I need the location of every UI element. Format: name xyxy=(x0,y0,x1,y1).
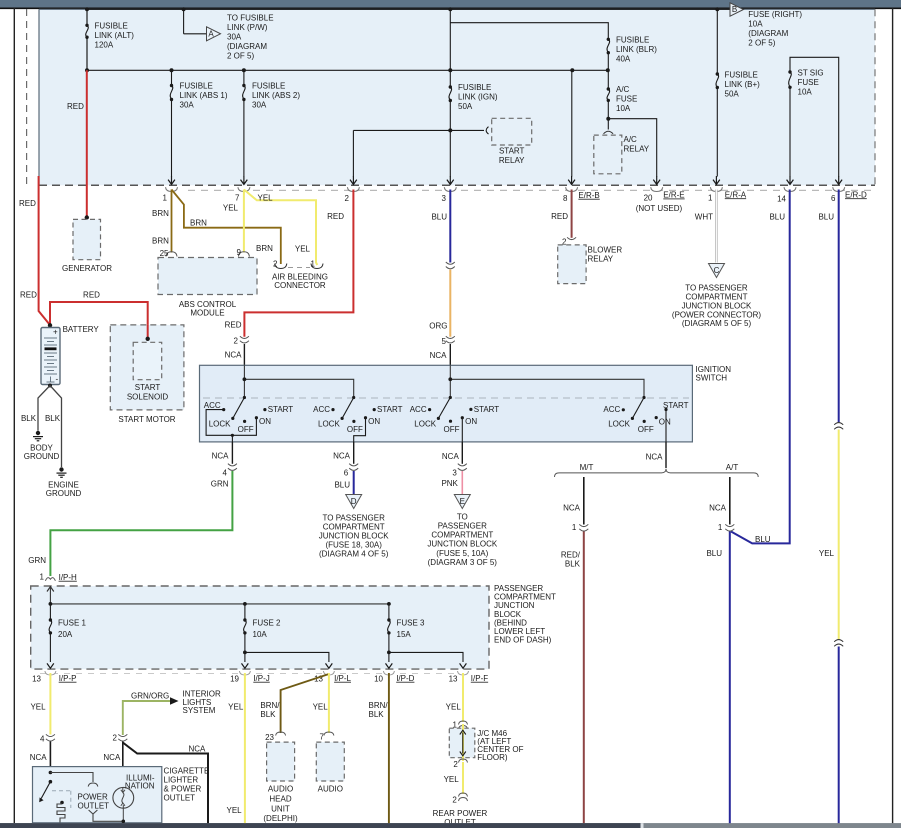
svg-text:COMPARTMENT: COMPARTMENT xyxy=(686,293,748,302)
svg-text:BLU: BLU xyxy=(769,213,785,222)
blower relay xyxy=(558,245,586,284)
svg-text:POWER: POWER xyxy=(78,792,108,801)
page right border xyxy=(892,8,894,823)
svg-text:AUDIO: AUDIO xyxy=(268,785,293,794)
svg-text:JUNCTION BLOCK: JUNCTION BLOCK xyxy=(682,302,752,311)
svg-text:RED: RED xyxy=(551,212,568,221)
svg-text:E/R-E: E/R-E xyxy=(663,191,684,200)
svg-text:10A: 10A xyxy=(748,20,763,29)
start solenoid xyxy=(133,342,162,379)
svg-text:YEL: YEL xyxy=(819,549,835,558)
svg-text:JUNCTION BLOCK: JUNCTION BLOCK xyxy=(319,532,389,541)
svg-text:OFF: OFF xyxy=(444,425,460,434)
svg-text:40A: 40A xyxy=(616,55,631,64)
svg-text:10A: 10A xyxy=(798,88,813,97)
ignition section 3 xyxy=(438,398,462,443)
svg-text:BLU: BLU xyxy=(706,549,722,558)
svg-text:START: START xyxy=(135,383,161,392)
svg-text:START: START xyxy=(663,401,689,410)
svg-text:6: 6 xyxy=(344,469,349,478)
svg-text:OUTLET: OUTLET xyxy=(78,801,110,810)
fuse 3 15A xyxy=(388,604,463,662)
illumination lamp xyxy=(113,787,134,808)
svg-text:LOCK: LOCK xyxy=(318,419,340,428)
branch to start relay and pin 2 xyxy=(448,128,452,132)
ABS control module xyxy=(166,252,177,257)
svg-text:10A: 10A xyxy=(253,630,268,639)
svg-text:1: 1 xyxy=(708,194,713,203)
branch to BLR column xyxy=(450,23,609,89)
box2 input arrow xyxy=(49,586,51,604)
svg-text:2: 2 xyxy=(453,760,458,769)
fusible link (ALT) 120A xyxy=(86,25,89,37)
svg-text:B: B xyxy=(732,5,737,14)
box2 bus xyxy=(50,603,389,605)
svg-text:I/P-H: I/P-H xyxy=(59,573,77,582)
ignition switch box xyxy=(200,365,693,442)
A/C fuse 10A xyxy=(607,89,610,130)
svg-text:START: START xyxy=(268,405,294,414)
svg-text:30A: 30A xyxy=(252,101,267,110)
svg-text:1: 1 xyxy=(163,194,168,203)
svg-text:YEL: YEL xyxy=(223,204,239,213)
svg-text:BLU: BLU xyxy=(431,213,447,222)
svg-text:(DELPHI): (DELPHI) xyxy=(263,814,298,823)
BLU/YEL/BLU wire pin6 xyxy=(838,190,840,423)
svg-text:(NOT USED): (NOT USED) xyxy=(636,204,683,213)
svg-text:E/R-D: E/R-D xyxy=(845,190,867,199)
top title bar xyxy=(0,0,901,8)
svg-text:START: START xyxy=(377,405,403,414)
svg-text:NCA: NCA xyxy=(430,351,448,360)
svg-text:10A: 10A xyxy=(616,104,631,113)
generator xyxy=(85,215,89,219)
engine ground xyxy=(59,467,63,471)
svg-text:START MOTOR: START MOTOR xyxy=(118,415,175,424)
svg-text:+: + xyxy=(53,328,58,337)
bottom status bar overlay xyxy=(0,823,901,828)
svg-text:NCA: NCA xyxy=(442,452,460,461)
svg-text:ST SIG: ST SIG xyxy=(798,69,824,78)
NCA wires below connector 2 xyxy=(122,742,124,788)
svg-text:GENERATOR: GENERATOR xyxy=(62,264,112,273)
svg-text:3: 3 xyxy=(452,469,457,478)
BRN/BLK wire I/P-L to audio head unit xyxy=(281,674,329,733)
svg-text:8: 8 xyxy=(563,194,568,203)
fusible link (B+) 50A xyxy=(716,72,719,75)
svg-text:ACC: ACC xyxy=(313,405,330,414)
RED wire pin2 to ignition xyxy=(244,190,353,337)
svg-text:ON: ON xyxy=(259,417,271,426)
svg-text:YEL: YEL xyxy=(258,194,274,203)
BLU/ORG wire pin3 to ignition xyxy=(449,190,451,263)
svg-text:A/C: A/C xyxy=(616,85,630,94)
svg-text:LOCK: LOCK xyxy=(209,419,231,428)
svg-text:BLK: BLK xyxy=(45,414,61,423)
YEL wire I/P-L to audio xyxy=(328,673,330,733)
svg-text:1: 1 xyxy=(311,259,316,268)
interface arrows at box bottom xyxy=(168,176,842,184)
svg-text:YEL: YEL xyxy=(228,703,244,712)
svg-text:FUSIBLE: FUSIBLE xyxy=(725,71,758,80)
svg-text:NCA: NCA xyxy=(30,753,48,762)
svg-text:SOLENOID: SOLENOID xyxy=(127,393,169,402)
svg-text:13: 13 xyxy=(32,674,41,683)
svg-text:BLK: BLK xyxy=(369,710,385,719)
A/C relay xyxy=(604,131,614,134)
ignition section 2 xyxy=(342,398,365,443)
svg-text:-: - xyxy=(56,375,59,384)
svg-text:AIR BLEEDING: AIR BLEEDING xyxy=(272,272,328,281)
svg-text:E: E xyxy=(460,497,465,506)
wire pin7 YEL to ABS pin 9 xyxy=(243,190,245,253)
svg-text:JUNCTION BLOCK: JUNCTION BLOCK xyxy=(427,540,497,549)
box2 output arrows xyxy=(47,663,466,668)
RED wire pin8 to blower relay xyxy=(571,190,573,238)
svg-text:GROUND: GROUND xyxy=(46,489,82,498)
svg-text:ON: ON xyxy=(465,417,477,426)
svg-text:ORG: ORG xyxy=(429,322,447,331)
branch to pin 20 xyxy=(606,117,610,121)
svg-text:BRN: BRN xyxy=(152,209,169,218)
svg-text:OFF: OFF xyxy=(638,425,654,434)
svg-text:TO PASSENGER: TO PASSENGER xyxy=(323,514,386,523)
svg-text:TO: TO xyxy=(457,513,468,522)
svg-text:BRN: BRN xyxy=(152,236,169,245)
red wire left edge to battery xyxy=(39,176,50,325)
section4 output to M/T A/T brace xyxy=(665,442,667,468)
svg-text:BLU: BLU xyxy=(818,213,834,222)
svg-text:NCA: NCA xyxy=(212,451,230,460)
svg-text:30A: 30A xyxy=(180,101,195,110)
svg-text:(POWER CONNECTOR): (POWER CONNECTOR) xyxy=(672,310,762,319)
svg-text:BRN: BRN xyxy=(256,244,273,253)
YEL wire I/P-J to bottom xyxy=(244,673,246,823)
body ground xyxy=(36,431,40,435)
svg-text:BLK: BLK xyxy=(565,559,581,568)
svg-text:LINK (ABS 2): LINK (ABS 2) xyxy=(252,91,300,100)
svg-text:(DIAGRAM 4 OF 5): (DIAGRAM 4 OF 5) xyxy=(319,549,389,558)
svg-text:NCA: NCA xyxy=(103,753,121,762)
page left dashed margin line xyxy=(26,9,28,184)
svg-text:FUSE 1: FUSE 1 xyxy=(58,619,87,628)
svg-text:LIGHTER: LIGHTER xyxy=(164,776,199,785)
svg-text:OUTLET: OUTLET xyxy=(164,794,196,803)
M/T A/T brace xyxy=(555,469,759,477)
svg-text:NCA: NCA xyxy=(333,451,351,460)
fusible link (ABS 2) 30A xyxy=(243,70,246,176)
svg-text:BRN/: BRN/ xyxy=(260,701,280,710)
svg-text:YEL: YEL xyxy=(295,244,311,253)
ignition section 4 xyxy=(632,398,666,443)
svg-text:OFF: OFF xyxy=(347,425,363,434)
svg-text:E/R-B: E/R-B xyxy=(578,191,599,200)
page left border xyxy=(13,8,15,823)
svg-text:GROUND: GROUND xyxy=(24,452,60,461)
BLU wire pin14 xyxy=(731,190,790,544)
svg-text:E/R-A: E/R-A xyxy=(725,190,747,199)
svg-text:LINK (ABS 1): LINK (ABS 1) xyxy=(180,91,228,100)
svg-text:WHT: WHT xyxy=(695,213,713,222)
wire bus B to pin 8 xyxy=(571,70,573,176)
box2 bottom connector cups xyxy=(40,673,470,675)
svg-text:I/P-J: I/P-J xyxy=(253,674,269,683)
svg-text:PASSENGER: PASSENGER xyxy=(438,522,487,531)
svg-text:COMPARTMENT: COMPARTMENT xyxy=(323,523,385,532)
svg-text:LOCK: LOCK xyxy=(414,419,436,428)
svg-text:FUSIBLE: FUSIBLE xyxy=(458,83,491,92)
section1 output GRN xyxy=(231,442,233,464)
J/C M46 xyxy=(449,728,475,758)
svg-text:2: 2 xyxy=(234,337,239,346)
svg-text:FUSE (RIGHT): FUSE (RIGHT) xyxy=(748,10,802,19)
start relay xyxy=(492,118,532,145)
ignition internal dashed line xyxy=(203,397,689,399)
svg-text:4: 4 xyxy=(222,468,227,477)
M/T branch RED/BLK xyxy=(583,477,585,525)
svg-text:END OF DASH): END OF DASH) xyxy=(494,636,552,645)
svg-text:ACC: ACC xyxy=(204,401,221,410)
svg-text:BRN/: BRN/ xyxy=(369,701,389,710)
inline connector 2 xyxy=(240,336,249,338)
triangle B fuse (right) xyxy=(730,3,744,16)
fusible link (ABS 1) 30A xyxy=(170,70,173,176)
svg-text:RED: RED xyxy=(83,290,100,299)
svg-text:A/C: A/C xyxy=(624,135,638,144)
svg-text:CONNECTOR: CONNECTOR xyxy=(274,281,326,290)
connector cups at interface xyxy=(166,187,845,191)
svg-text:A/T: A/T xyxy=(726,463,739,472)
svg-text:NCA: NCA xyxy=(646,452,664,461)
svg-text:(DIAGRAM 5 OF 5): (DIAGRAM 5 OF 5) xyxy=(682,319,752,328)
B+ column with triangle B xyxy=(716,9,719,176)
svg-text:A: A xyxy=(208,30,214,39)
svg-text:RED/: RED/ xyxy=(561,550,581,559)
svg-text:50A: 50A xyxy=(458,102,473,111)
svg-text:14: 14 xyxy=(777,194,786,203)
svg-text:RELAY: RELAY xyxy=(499,156,525,165)
wire pin1 BRN to air bleeding pin 2 xyxy=(172,190,281,265)
svg-text:GRN: GRN xyxy=(211,479,229,488)
svg-text:ON: ON xyxy=(368,417,380,426)
connector interface dashed line xyxy=(188,189,872,191)
triangle A link to fusible link P/W xyxy=(184,9,207,34)
cigarette lighter & power outlet box xyxy=(33,767,162,823)
ignition bus wires xyxy=(244,379,353,397)
svg-text:20: 20 xyxy=(644,193,653,202)
svg-text:5: 5 xyxy=(442,337,447,346)
svg-text:YEL: YEL xyxy=(227,806,243,815)
power outlet internals xyxy=(49,771,53,775)
svg-text:GRN/ORG: GRN/ORG xyxy=(131,691,169,700)
svg-text:BLK: BLK xyxy=(260,710,276,719)
svg-text:LINK (P/W): LINK (P/W) xyxy=(227,23,268,32)
svg-text:& POWER: & POWER xyxy=(164,785,202,794)
svg-text:RED: RED xyxy=(20,291,37,300)
svg-text:30A: 30A xyxy=(227,33,242,42)
svg-text:I/P-D: I/P-D xyxy=(396,674,414,683)
audio xyxy=(316,742,344,781)
svg-text:I/P-F: I/P-F xyxy=(471,674,488,683)
svg-text:YEL: YEL xyxy=(30,703,46,712)
svg-text:FUSIBLE: FUSIBLE xyxy=(95,22,128,31)
svg-text:NATION: NATION xyxy=(125,782,155,791)
WHT wire pin1 to triangle C xyxy=(715,190,718,263)
svg-text:M/T: M/T xyxy=(580,463,594,472)
YEL wire I/P-F to J/C M46 xyxy=(462,673,464,722)
svg-text:TO FUSIBLE: TO FUSIBLE xyxy=(227,14,274,23)
svg-text:2 OF 5): 2 OF 5) xyxy=(227,52,254,61)
svg-text:TO PASSENGER: TO PASSENGER xyxy=(685,284,748,293)
fuse 2 10A xyxy=(244,604,329,662)
svg-text:1: 1 xyxy=(718,523,723,532)
fuse 1 20A xyxy=(49,604,52,662)
triangle E xyxy=(454,495,470,509)
svg-text:19: 19 xyxy=(230,674,239,683)
air bleeding connector xyxy=(275,264,287,269)
svg-text:AUDIO: AUDIO xyxy=(318,785,343,794)
GRN/ORG wire and interior lights arrow xyxy=(123,701,170,735)
svg-text:(FUSE 18, 30A): (FUSE 18, 30A) xyxy=(325,541,382,550)
svg-text:1: 1 xyxy=(572,523,577,532)
svg-text:NCA: NCA xyxy=(709,504,727,513)
svg-text:10: 10 xyxy=(374,674,383,683)
ST SIG fuse loop xyxy=(789,57,839,176)
svg-text:HEAD: HEAD xyxy=(269,795,291,804)
svg-text:BRN: BRN xyxy=(190,218,207,227)
svg-text:RED: RED xyxy=(327,212,344,221)
svg-text:RED: RED xyxy=(19,199,36,208)
wire bus A (top) xyxy=(87,9,730,70)
svg-text:2: 2 xyxy=(113,734,118,743)
start motor xyxy=(110,325,184,410)
svg-text:ACC: ACC xyxy=(410,405,427,414)
svg-text:D: D xyxy=(351,497,357,506)
svg-text:NCA: NCA xyxy=(189,744,207,753)
wire bus B (y=70) xyxy=(87,69,607,71)
svg-text:BLU: BLU xyxy=(334,481,350,490)
svg-text:FLOOR): FLOOR) xyxy=(477,753,508,762)
ignition section 1 xyxy=(206,398,256,443)
section3 output PNK to triangle E xyxy=(461,442,463,464)
svg-text:120A: 120A xyxy=(95,41,114,50)
svg-text:LOCK: LOCK xyxy=(608,419,630,428)
svg-text:2: 2 xyxy=(345,194,350,203)
svg-text:NCA: NCA xyxy=(563,504,581,513)
svg-text:YEL: YEL xyxy=(313,703,329,712)
svg-text:9: 9 xyxy=(237,248,242,257)
svg-text:LINK (BLR): LINK (BLR) xyxy=(616,45,657,54)
audio head unit xyxy=(267,742,295,781)
svg-text:50A: 50A xyxy=(725,90,740,99)
svg-text:6: 6 xyxy=(831,194,836,203)
YEL wire I/P-P to power outlet xyxy=(49,673,51,735)
battery xyxy=(48,323,52,327)
svg-text:7: 7 xyxy=(320,733,325,742)
svg-text:FUSIBLE: FUSIBLE xyxy=(180,82,213,91)
svg-text:START: START xyxy=(499,147,525,156)
svg-text:7: 7 xyxy=(235,194,240,203)
bottom status bar xyxy=(0,823,901,828)
svg-text:COMPARTMENT: COMPARTMENT xyxy=(431,531,493,540)
svg-text:MODULE: MODULE xyxy=(190,309,224,318)
svg-text:FUSE: FUSE xyxy=(798,78,819,87)
svg-text:BATTERY: BATTERY xyxy=(63,325,100,334)
svg-text:(DIAGRAM 3 OF 5): (DIAGRAM 3 OF 5) xyxy=(428,558,498,567)
svg-text:3: 3 xyxy=(442,194,447,203)
svg-text:(DIAGRAM: (DIAGRAM xyxy=(748,29,788,38)
engine compartment junction block (top box) xyxy=(39,9,875,185)
ignition feed column + fusible link (IGN) 50A xyxy=(449,9,452,176)
svg-text:NCA: NCA xyxy=(225,351,243,360)
red wire to generator (inside box) xyxy=(86,70,88,217)
A/T branch BLU xyxy=(729,477,731,525)
wire pin7 YEL to air bleeding pin 1 xyxy=(244,190,317,266)
svg-text:(DIAGRAM: (DIAGRAM xyxy=(227,42,267,51)
wire pin1 BRN to ABS pin 25 xyxy=(171,190,173,253)
svg-text:SWITCH: SWITCH xyxy=(696,374,728,383)
svg-text:ON: ON xyxy=(659,417,671,426)
svg-text:23: 23 xyxy=(265,733,274,742)
svg-text:SYSTEM: SYSTEM xyxy=(183,706,216,715)
svg-text:LINK (ALT): LINK (ALT) xyxy=(95,31,135,40)
passenger compartment junction block (box2) xyxy=(31,586,489,669)
triangle D xyxy=(346,495,362,509)
svg-text:RELAY: RELAY xyxy=(624,145,650,154)
svg-text:20A: 20A xyxy=(58,630,73,639)
svg-text:I/P-L: I/P-L xyxy=(334,674,351,683)
svg-text:ACC: ACC xyxy=(603,405,620,414)
svg-text:2 OF 5): 2 OF 5) xyxy=(748,39,775,48)
svg-text:REAR POWER: REAR POWER xyxy=(433,809,488,818)
svg-text:1: 1 xyxy=(40,573,45,582)
svg-text:YEL: YEL xyxy=(444,775,460,784)
I/P-H connector xyxy=(45,578,55,581)
svg-text:CIGARETTE: CIGARETTE xyxy=(164,767,210,776)
svg-text:START: START xyxy=(474,405,500,414)
triangle C xyxy=(709,264,725,278)
svg-text:2: 2 xyxy=(452,795,457,804)
svg-text:FUSIBLE: FUSIBLE xyxy=(616,36,649,45)
svg-text:FUSE: FUSE xyxy=(616,95,637,104)
svg-text:(FUSE 5, 10A): (FUSE 5, 10A) xyxy=(436,549,488,558)
red battery bus xyxy=(50,302,148,337)
svg-text:4: 4 xyxy=(40,735,45,744)
svg-text:2: 2 xyxy=(273,259,278,268)
svg-text:15A: 15A xyxy=(397,630,412,639)
svg-text:RED: RED xyxy=(67,102,84,111)
svg-text:UNIT: UNIT xyxy=(271,805,290,814)
fusible link (BLR) 40A xyxy=(607,38,610,41)
svg-text:FUSE 2: FUSE 2 xyxy=(253,619,282,628)
svg-text:PNK: PNK xyxy=(441,479,458,488)
BRN/BLK wire I/P-D to bottom xyxy=(388,673,390,823)
svg-text:YEL: YEL xyxy=(446,703,462,712)
svg-text:C: C xyxy=(714,266,720,275)
section2 output BLU to triangle D xyxy=(353,442,355,464)
svg-text:25: 25 xyxy=(160,249,169,258)
svg-text:I/P-P: I/P-P xyxy=(59,674,77,683)
svg-text:RED: RED xyxy=(225,321,242,330)
svg-text:GRN: GRN xyxy=(28,556,46,565)
battery ground wires xyxy=(48,384,52,388)
svg-text:LINK (B+): LINK (B+) xyxy=(725,80,761,89)
svg-text:OFF: OFF xyxy=(238,425,254,434)
svg-text:LINK (IGN): LINK (IGN) xyxy=(458,93,498,102)
svg-text:FUSE 3: FUSE 3 xyxy=(397,619,426,628)
svg-text:BLK: BLK xyxy=(21,414,37,423)
svg-text:RELAY: RELAY xyxy=(588,254,614,263)
